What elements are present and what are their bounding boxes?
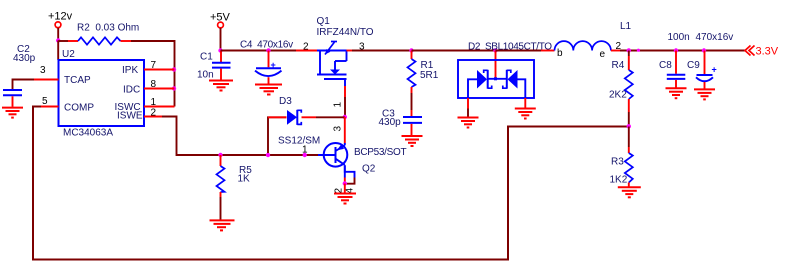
svg-text:3.3V: 3.3V — [756, 46, 779, 58]
svg-text:7: 7 — [151, 60, 157, 71]
wire ISWE to base rail — [162, 117, 318, 156]
svg-text:470x16v: 470x16v — [696, 32, 734, 43]
ground under R5 — [210, 220, 235, 230]
node D3 anode junction — [266, 153, 270, 157]
ground under C4 — [255, 85, 282, 95]
wire gate node to Q2 emitter — [344, 117, 346, 144]
svg-text:C4 470x16v: C4 470x16v — [240, 40, 293, 51]
svg-text:+: + — [271, 60, 276, 70]
wire Q1 gate to D3/Q2 node — [344, 97, 346, 117]
capacitor C1 10n — [197, 51, 231, 81]
wire +12v drop — [57, 28, 59, 41]
node gate junction — [343, 115, 347, 119]
wire +5V rail — [221, 50, 297, 52]
ground under C1 — [209, 81, 233, 91]
wire R5 to ground — [220, 197, 222, 220]
wire D2 left anode to ground — [467, 98, 469, 117]
svg-text:2: 2 — [151, 108, 157, 119]
power terminal +5V — [210, 12, 231, 28]
wire R1 node to D2 tap — [412, 50, 496, 52]
resistor R4 2K2 — [609, 56, 633, 112]
svg-text:5: 5 — [42, 96, 48, 107]
svg-text:1: 1 — [302, 145, 308, 156]
svg-text:1: 1 — [333, 102, 344, 108]
resistor R5 1K — [217, 155, 253, 197]
svg-text:+12v: +12v — [48, 11, 73, 23]
svg-text:BCP53/SOT: BCP53/SOT — [354, 147, 407, 158]
svg-text:SS12/SM: SS12/SM — [278, 136, 320, 147]
diode D2 SBL1045CT/TO — [458, 42, 552, 99]
ground under C8 — [666, 88, 687, 98]
node R5 junction — [218, 153, 222, 157]
capacitor C3 430p — [379, 109, 423, 136]
node +12v junction — [56, 38, 60, 42]
wire L1 to output — [620, 50, 746, 52]
capacitor C9 470x16v — [687, 32, 733, 89]
ground under C2 — [2, 108, 23, 118]
wire +12v junction to R2 — [58, 40, 68, 42]
wire +5V drop — [220, 28, 222, 51]
wire R1 to C3 — [411, 93, 413, 110]
node R1 junction — [409, 48, 413, 52]
wire D2 right anode to ground — [524, 98, 526, 108]
svg-text:L1: L1 — [620, 21, 632, 32]
svg-text:D3: D3 — [279, 96, 292, 107]
wire D3 cathode to gate node — [316, 116, 345, 118]
wire D2 tap to L1 — [496, 50, 542, 52]
svg-text:5R1: 5R1 — [420, 70, 439, 81]
node L1/R4 junction — [627, 48, 631, 52]
svg-text:2K2: 2K2 — [609, 90, 627, 101]
svg-text:1: 1 — [151, 97, 157, 108]
wire Q1 source to R1 — [352, 50, 412, 52]
svg-text:IPK: IPK — [122, 65, 138, 76]
svg-text:e: e — [600, 49, 606, 60]
ground under D2 right — [515, 109, 536, 119]
svg-text:+: + — [712, 65, 717, 75]
node Q2 collector junction — [343, 181, 347, 185]
inductor L1 — [541, 21, 632, 60]
node small junction right — [637, 49, 640, 52]
node C8 junction — [674, 48, 678, 52]
svg-text:U2: U2 — [62, 49, 75, 60]
svg-text:ISWE: ISWE — [117, 111, 143, 122]
node +5V junction — [218, 48, 222, 52]
resistor R3 1K2 — [610, 147, 633, 187]
svg-text:Q2: Q2 — [362, 164, 376, 175]
wire feedback node to R3 — [628, 127, 630, 148]
ground under C3 — [402, 136, 423, 146]
capacitor C2 430p — [3, 44, 36, 107]
resistor R2 0.03 Ohm — [68, 23, 139, 45]
svg-text:1K: 1K — [238, 173, 251, 184]
svg-text:MC34063A: MC34063A — [63, 128, 113, 139]
svg-text:R3: R3 — [611, 157, 624, 168]
node Q2 base junction — [303, 153, 307, 157]
node C9 junction — [702, 48, 706, 52]
svg-text:3: 3 — [333, 126, 344, 132]
IC U2 MC34063A — [34, 49, 175, 139]
svg-text:1K2: 1K2 — [610, 175, 628, 186]
wire R2 to IPK/IDC/ISWC vertical — [131, 41, 175, 107]
svg-text:TCAP: TCAP — [64, 75, 91, 86]
svg-text:100n: 100n — [668, 32, 690, 43]
svg-text:430p: 430p — [13, 53, 36, 64]
svg-text:C8: C8 — [659, 60, 672, 71]
net label 3.3V — [745, 46, 779, 58]
svg-text:b: b — [557, 48, 563, 59]
capacitor C8 100n — [659, 32, 690, 88]
ground under Q2 — [334, 194, 356, 204]
svg-text:10n: 10n — [197, 70, 214, 81]
wire R4 to feedback node — [628, 112, 630, 127]
svg-text:430p: 430p — [379, 117, 402, 128]
transistor Q1 IRFZ44N/TO mosfet — [296, 16, 374, 97]
ground under D2 left — [458, 118, 479, 128]
svg-text:IDC: IDC — [123, 85, 140, 96]
wire Q2 collector to ground — [344, 184, 346, 193]
power terminal +12v — [48, 11, 73, 28]
node D2 tap junction — [493, 48, 497, 52]
svg-text:3: 3 — [40, 65, 46, 76]
svg-text:8: 8 — [151, 79, 157, 90]
node C4 junction — [266, 48, 270, 52]
node feedback junction — [627, 124, 631, 128]
diode D3 SS12/SM — [268, 96, 320, 156]
transistor Q2 BCP53/SOT — [318, 143, 407, 194]
wire +12v junction to U2 box top — [57, 41, 59, 61]
wire R4 top stub — [628, 51, 630, 57]
node IPK junction — [172, 67, 176, 71]
svg-text:C9: C9 — [687, 60, 700, 71]
ground under C9 — [694, 89, 715, 99]
svg-text:Q1: Q1 — [317, 16, 331, 27]
svg-text:R4: R4 — [612, 60, 625, 71]
svg-text:R2 0.03 Ohm: R2 0.03 Ohm — [77, 23, 139, 34]
node IDC junction — [172, 86, 176, 90]
capacitor C4 470x16v — [240, 40, 293, 84]
svg-text:C1: C1 — [200, 52, 213, 63]
resistor R1 5R1 — [408, 51, 439, 94]
wire COMP feedback loop — [33, 107, 629, 260]
svg-text:IRFZ44N/TO: IRFZ44N/TO — [317, 27, 374, 38]
svg-text:COMP: COMP — [64, 103, 94, 114]
ground under R3 — [618, 187, 641, 197]
